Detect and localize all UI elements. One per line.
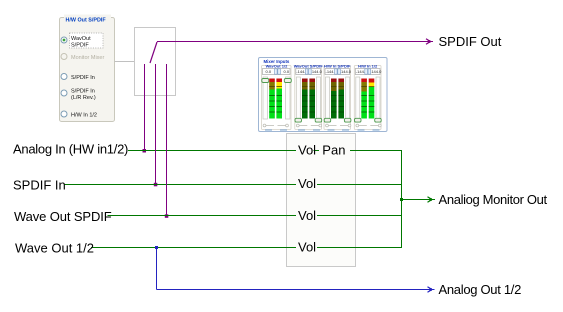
svg-text:Vol: Vol	[298, 176, 316, 191]
svg-text:0.0: 0.0	[266, 69, 272, 74]
svg-text:H/W Out S/PDIF: H/W Out S/PDIF	[66, 17, 107, 23]
svg-text:-144.0: -144.0	[370, 69, 382, 74]
svg-text:Vol: Vol	[298, 240, 316, 255]
svg-text:Pan: Pan	[322, 142, 345, 157]
svg-text:0.0: 0.0	[284, 69, 290, 74]
svg-text:S/PDIF: S/PDIF	[71, 42, 89, 48]
svg-text:Vol: Vol	[298, 142, 316, 157]
svg-text:WavOut S/PDIF: WavOut S/PDIF	[294, 63, 324, 68]
svg-text:Vol: Vol	[298, 208, 316, 223]
svg-text:S/PDIF In: S/PDIF In	[71, 88, 95, 94]
svg-text:Wave Out 1/2: Wave Out 1/2	[15, 241, 94, 256]
svg-text:H/W In 1/2: H/W In 1/2	[71, 112, 97, 118]
svg-text:SPDIF In: SPDIF In	[13, 177, 66, 192]
svg-text:-144.0: -144.0	[340, 69, 352, 74]
svg-text:S/PDIF In: S/PDIF In	[71, 75, 95, 81]
svg-text:-144.0: -144.0	[311, 69, 323, 74]
svg-text:Analiog Monitor Out: Analiog Monitor Out	[439, 192, 548, 207]
svg-text:Wave Out SPDIF: Wave Out SPDIF	[14, 209, 112, 224]
svg-text:H/W In S/PDIF: H/W In S/PDIF	[324, 63, 351, 68]
svg-text:Monitor Mixer: Monitor Mixer	[71, 55, 104, 61]
svg-text:WavOut: WavOut	[71, 36, 91, 42]
svg-text:Analog Out 1/2: Analog Out 1/2	[439, 282, 522, 297]
svg-text:WavOut 1/2: WavOut 1/2	[266, 63, 288, 68]
svg-text:(L/R Rev.): (L/R Rev.)	[71, 95, 96, 101]
svg-text:Analog In (HW in1/2): Analog In (HW in1/2)	[13, 142, 128, 157]
svg-text:H/W In 1/2: H/W In 1/2	[358, 63, 378, 68]
svg-text:SPDIF Out: SPDIF Out	[439, 34, 502, 49]
